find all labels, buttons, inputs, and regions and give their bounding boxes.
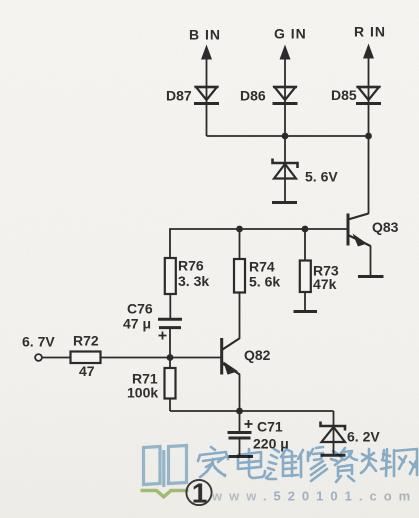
ground under R73 [294, 310, 318, 313]
svg-text:R74: R74 [249, 259, 275, 275]
svg-text:R IN: R IN [354, 24, 386, 40]
resistor R72 47 [71, 333, 101, 380]
svg-text:R72: R72 [73, 333, 99, 349]
wire bottom bus [170, 410, 334, 412]
resistor R76 3.3k [165, 258, 210, 320]
wire top bus [207, 135, 369, 137]
wire R72 to Q82 base [101, 357, 221, 359]
node junction C71 [236, 408, 243, 415]
zener diode 6.2V [321, 411, 381, 455]
svg-text:3. 3k: 3. 3k [178, 273, 209, 289]
svg-text:R76: R76 [178, 258, 204, 274]
node junction R73 top [302, 226, 309, 233]
svg-text:C71: C71 [257, 419, 283, 435]
node junction base [167, 354, 174, 361]
svg-text:B IN: B IN [189, 27, 221, 43]
wire zener drop [284, 136, 286, 202]
svg-text:Q82: Q82 [244, 347, 271, 363]
svg-text:Q83: Q83 [372, 219, 399, 235]
ground under C71 [229, 455, 254, 458]
wire R column drop [368, 136, 370, 214]
svg-text:47 μ: 47 μ [123, 316, 151, 332]
svg-text:6. 2V: 6. 2V [347, 429, 380, 445]
svg-text:6. 7V: 6. 7V [22, 334, 55, 350]
transistor Q83 [348, 214, 399, 277]
diode D87 [166, 87, 219, 104]
terminal B IN arrow [201, 45, 212, 137]
ground under 5.6V zener [272, 201, 297, 204]
transistor Q82 [222, 338, 271, 411]
svg-text:G IN: G IN [274, 26, 307, 42]
terminal R IN arrow [363, 44, 374, 137]
capacitor C76 47u [123, 301, 182, 358]
terminal G IN arrow [280, 45, 291, 137]
node junction R [365, 133, 372, 140]
resistor R74 5.6k [234, 229, 280, 339]
svg-text:www.520101.com: www.520101.com [211, 489, 417, 504]
diode D86 [240, 87, 298, 104]
capacitor C71 220u [228, 411, 289, 456]
ground under Q83 [358, 275, 384, 278]
svg-text:5. 6k: 5. 6k [249, 274, 280, 290]
svg-text:47: 47 [79, 363, 95, 379]
svg-text:1: 1 [192, 478, 208, 509]
svg-text:D85: D85 [331, 87, 357, 103]
svg-text:D87: D87 [166, 88, 192, 104]
node junction R74 top [236, 226, 243, 233]
svg-text:C76: C76 [127, 301, 153, 317]
svg-text:47k: 47k [313, 276, 337, 292]
resistor R73 47k [300, 229, 339, 311]
resistor R71 100k [127, 358, 176, 412]
svg-text:5. 6V: 5. 6V [305, 169, 338, 185]
svg-text:100k: 100k [127, 385, 158, 401]
terminal 6.7V [22, 334, 71, 361]
node junction G [282, 133, 289, 140]
wire mid bus [170, 229, 347, 258]
ground under 6.2V zener [321, 454, 346, 457]
svg-text:D86: D86 [240, 88, 266, 104]
diode D85 [331, 87, 381, 104]
svg-text:220 μ: 220 μ [253, 436, 289, 452]
zener diode 5.6V [273, 159, 339, 185]
